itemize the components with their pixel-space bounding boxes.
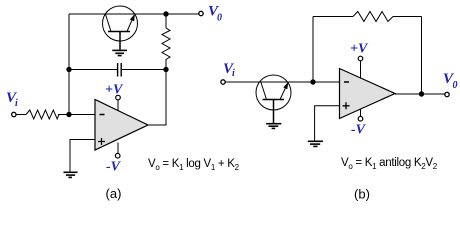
svg-text:-V: -V — [351, 123, 367, 138]
svg-text:i: i — [15, 98, 18, 109]
wire top rail left lead (b) — [313, 16, 353, 18]
capacitor C1 plates — [118, 63, 122, 77]
node feedback junction left (b) — [310, 79, 315, 84]
svg-text:i: i — [232, 68, 235, 79]
wire feedback left riser (b) — [312, 17, 314, 83]
svg-text:Vo = K1 log V1 + K2: Vo = K1 log V1 + K2 — [148, 158, 240, 172]
resistor R3 feedback (b) — [353, 12, 393, 22]
svg-text:(b): (b) — [354, 187, 370, 202]
wire feedback right riser (b) — [421, 17, 423, 95]
node +V supply terminal (b) — [360, 61, 362, 78]
node output junction top (a) — [163, 11, 168, 16]
transistor Q1 circle — [103, 6, 138, 41]
label U1 plus input — [98, 138, 105, 145]
label U1 minus input — [100, 114, 105, 116]
node -V supply terminal (b) — [360, 109, 362, 117]
wire capacitor left lead (a) — [69, 69, 117, 71]
transistor Q2 collector diagonal — [261, 83, 267, 100]
node Vi input terminal (a) — [12, 112, 16, 116]
ground op-amp plus input (a) — [64, 172, 78, 177]
wire Q1 base stem — [119, 32, 121, 50]
svg-text:0: 0 — [453, 80, 458, 91]
svg-text:Vo = K1 antilog K2V2: Vo = K1 antilog K2V2 — [341, 157, 438, 171]
node +V supply terminal (a) — [117, 100, 119, 111]
node Vo output terminal (b) — [445, 92, 449, 96]
wire Q2 base stem — [273, 100, 275, 124]
transistor Q2 circle — [256, 75, 291, 110]
transistor Q1 emitter diagonal — [127, 16, 134, 32]
ground Q2 — [266, 124, 281, 129]
transistor Q2 emitter diagonal — [280, 84, 288, 100]
transistor Q1 base bar — [108, 31, 130, 33]
wire top feedback rail (a) — [69, 13, 199, 15]
wire output to feedback (a) — [148, 70, 166, 126]
svg-text:(a): (a) — [106, 186, 122, 201]
wire top rail right lead (b) — [393, 16, 422, 18]
node -V supply terminal (a) — [117, 143, 119, 154]
node feedback junction right (a) — [163, 67, 168, 72]
wire output (b) — [395, 93, 445, 95]
svg-text:+V: +V — [105, 83, 124, 98]
resistor R1 input (a) — [26, 110, 59, 119]
node summing junction (a) — [66, 112, 71, 117]
wire plus input to ground (a) — [70, 140, 95, 172]
svg-text:-V: -V — [106, 160, 122, 175]
wire capacitor right lead (a) — [122, 69, 166, 71]
wire resistor to summing node (a) — [58, 114, 95, 116]
ground op-amp plus input (b) — [308, 141, 323, 146]
transistor Q1 emitter arrowhead — [130, 14, 135, 21]
op-amp U2 body — [340, 69, 396, 119]
wire left vertical feedback riser (a) — [68, 14, 70, 115]
node capacitor tap junction (a) — [66, 67, 71, 72]
node Vi input terminal (b) — [221, 80, 225, 84]
transistor Q1 collector diagonal — [106, 15, 112, 32]
svg-text:0: 0 — [217, 13, 222, 24]
op-amp U1 body — [95, 100, 148, 151]
ground Q1 — [112, 50, 127, 55]
transistor Q2 base bar — [263, 99, 285, 101]
node output junction (b) — [419, 91, 424, 96]
label U2 plus input — [343, 102, 350, 109]
resistor R2 feedback vertical (a) — [162, 14, 170, 70]
svg-text:+V: +V — [350, 42, 369, 57]
transistor Q2 emitter arrowhead — [283, 82, 288, 89]
wire plus input to ground (b) — [315, 106, 340, 141]
node Vo output terminal (a) — [199, 11, 203, 15]
wire input lead (a) — [16, 114, 26, 116]
label U2 minus input — [344, 81, 349, 83]
wire input to op-amp (b) — [225, 81, 339, 83]
